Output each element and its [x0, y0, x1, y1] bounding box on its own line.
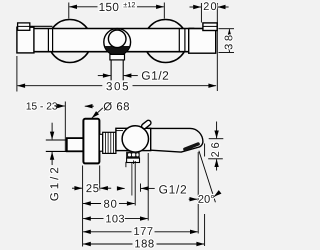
bottom hose outlet knurled flange (dark with slots)	[126, 152, 140, 158]
right union pipe line	[189, 27, 195, 29]
wall union block	[67, 138, 84, 151]
dim G1/2 top (hose connection)	[98, 75, 111, 77]
handle knob circle	[122, 126, 148, 152]
dim G1/2 left (wall connection, rotated)	[51, 123, 53, 140]
right end cap	[189, 29, 216, 54]
dim 15 - 23	[27, 102, 58, 109]
tube bottom line	[17, 51, 216, 53]
wall supply pipe	[46, 139, 67, 141]
hose outlet ring: outer circle	[104, 29, 131, 56]
right union box on top	[203, 23, 217, 31]
handle lever tab	[141, 119, 152, 129]
dim 25	[72, 187, 82, 189]
dim 20 (right union width)	[200, 3, 202, 23]
left union pipe line	[30, 25, 53, 27]
spray angle 20 deg	[197, 152, 199, 234]
strip right of right knob	[178, 29, 180, 52]
tube top line	[17, 28, 216, 30]
dim 188	[83, 243, 132, 245]
label dia 68 with leader	[104, 102, 129, 111]
dim 305 (overall width)	[16, 56, 18, 92]
hose nut	[110, 54, 125, 60]
dim 150 +-12	[68, 3, 70, 19]
strip left of left knob	[47, 29, 49, 52]
dim 80	[83, 203, 101, 205]
escutcheon disc (side)	[83, 119, 99, 164]
left union box on top	[18, 23, 30, 30]
hose outlet inner circle	[108, 30, 126, 48]
extension lines bottom	[82, 166, 84, 247]
dim 177	[83, 231, 131, 233]
dim G1/2 bottom outlet	[125, 162, 127, 167]
knurled ring	[103, 132, 116, 153]
hose outlet dark collar	[105, 46, 130, 55]
adapter ring	[99, 134, 102, 151]
dim 103	[83, 218, 103, 220]
dim 26 (spout tip, rotated)	[209, 138, 224, 140]
valve body	[116, 128, 151, 150]
left end cap	[17, 27, 34, 53]
spout outline	[148, 128, 203, 152]
body tube white fill	[17, 29, 216, 52]
hose pipe	[110, 60, 112, 80]
spout bottom line	[151, 150, 181, 152]
dim 38 (tube diameter, rotated)	[219, 28, 235, 30]
escutcheon circle left	[48, 20, 91, 63]
bottom hose outlet nut	[127, 158, 140, 162]
escutcheon circle right	[144, 20, 187, 63]
spout mouth aerator (dark slanted band)	[183, 142, 201, 152]
